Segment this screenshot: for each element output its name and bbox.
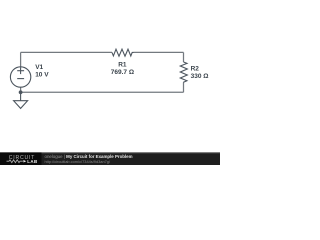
wire: right vertical lower [183, 83, 185, 93]
svg-text:330 Ω: 330 Ω [191, 73, 209, 80]
footer logo block [0, 153, 42, 165]
wire: bottom rail [21, 91, 184, 93]
svg-text:10 V: 10 V [35, 71, 49, 78]
footer bar [0, 152, 220, 165]
svg-text:V1: V1 [35, 64, 43, 71]
wire: right vertical upper [183, 52, 185, 62]
svg-text:http://circuitlab.com/c/7344s/: http://circuitlab.com/c/7344s/9d3an7g/ [45, 159, 111, 164]
plus sign [17, 70, 24, 72]
minus sign [17, 78, 24, 80]
wire: top rail right segment [134, 51, 184, 53]
wire: top-left vertical from source to top rail [20, 52, 22, 67]
resistor R2 [180, 62, 187, 83]
resistor R1 [112, 49, 134, 56]
svg-text:LAB: LAB [27, 159, 38, 164]
wire: top rail left segment [21, 51, 112, 53]
svg-text:R2: R2 [191, 66, 200, 73]
node junction dot [19, 90, 23, 94]
logo resistor zigzag [7, 160, 23, 163]
logo arrow [23, 160, 26, 163]
wire: source bottom stub [20, 87, 22, 92]
ground [20, 92, 22, 100]
svg-text:R1: R1 [118, 61, 127, 68]
voltage source V1 [10, 67, 30, 87]
svg-text:769.7 Ω: 769.7 Ω [111, 69, 134, 76]
